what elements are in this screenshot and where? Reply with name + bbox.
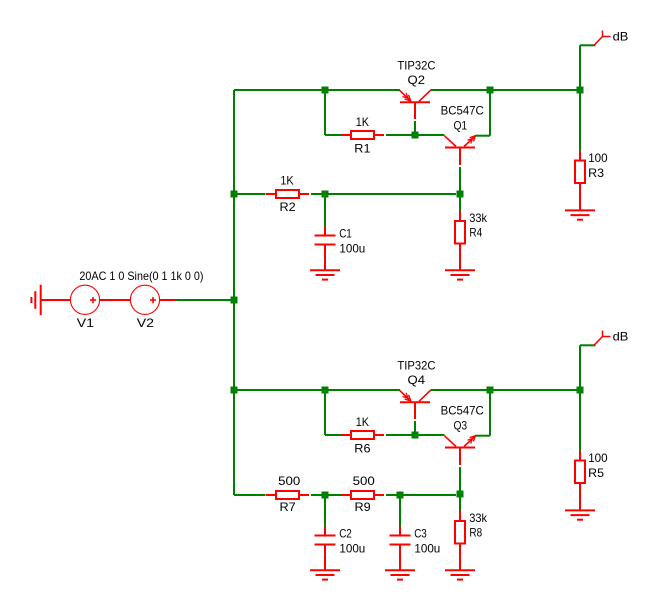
svg-text:R5: R5 xyxy=(588,466,604,480)
svg-text:dB: dB xyxy=(613,330,629,344)
svg-text:C3: C3 xyxy=(414,527,427,541)
svg-text:TIP32C: TIP32C xyxy=(397,358,436,372)
svg-text:C1: C1 xyxy=(339,227,352,241)
svg-text:BC547C: BC547C xyxy=(441,103,485,117)
svg-text:R4: R4 xyxy=(469,225,482,239)
svg-text:R1: R1 xyxy=(354,141,370,155)
svg-text:100: 100 xyxy=(588,151,608,165)
svg-text:100u: 100u xyxy=(414,542,440,556)
svg-text:R6: R6 xyxy=(354,441,371,455)
svg-text:R9: R9 xyxy=(355,500,371,514)
svg-text:Q1: Q1 xyxy=(453,118,467,132)
svg-text:R3: R3 xyxy=(588,166,604,180)
svg-text:TIP32C: TIP32C xyxy=(397,58,436,72)
svg-text:C2: C2 xyxy=(339,527,352,541)
svg-text:V1: V1 xyxy=(77,316,94,330)
svg-text:500: 500 xyxy=(353,474,376,488)
svg-text:100u: 100u xyxy=(339,242,365,256)
svg-text:33k: 33k xyxy=(469,211,487,225)
svg-text:33k: 33k xyxy=(469,511,487,525)
svg-text:Q4: Q4 xyxy=(408,373,426,387)
svg-text:20AC 1 0 Sine(0 1 1k 0 0): 20AC 1 0 Sine(0 1 1k 0 0) xyxy=(79,269,203,283)
svg-text:500: 500 xyxy=(278,474,301,488)
svg-text:1K: 1K xyxy=(280,174,293,188)
svg-text:BC547C: BC547C xyxy=(441,403,485,417)
svg-text:100u: 100u xyxy=(339,542,365,556)
svg-text:100: 100 xyxy=(588,451,608,465)
svg-text:R8: R8 xyxy=(469,525,482,539)
svg-text:V2: V2 xyxy=(137,316,154,330)
svg-text:dB: dB xyxy=(613,30,629,44)
svg-text:Q3: Q3 xyxy=(453,418,467,432)
svg-text:1K: 1K xyxy=(356,115,369,129)
svg-text:R7: R7 xyxy=(280,500,296,514)
svg-text:1K: 1K xyxy=(356,415,369,429)
svg-text:Q2: Q2 xyxy=(408,73,426,87)
svg-text:R2: R2 xyxy=(280,200,296,214)
